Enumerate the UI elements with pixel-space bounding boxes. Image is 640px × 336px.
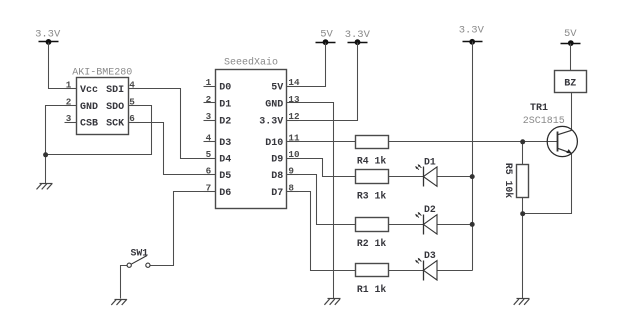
pin 10 D9 of U2: [271, 149, 300, 166]
wire 5V to U2 pin 14: [287, 43, 326, 87]
svg-text:D2: D2: [424, 204, 436, 215]
wire ground junction to U1 SDO pin 5: [46, 106, 152, 155]
svg-text:R1 1k: R1 1k: [357, 284, 387, 295]
wire R4 to transistor TR1 base: [389, 141, 558, 143]
resistor R2 1k: [356, 218, 389, 250]
pin 3 D2 of U2: [204, 111, 232, 128]
wire 5V to buzzer BZ: [570, 44, 572, 71]
svg-text:D4: D4: [219, 154, 231, 165]
IC U1 AKI-BME280 body: [77, 78, 129, 135]
svg-text:D8: D8: [271, 171, 283, 182]
wire U2 D10 pin 11 to resistor R4: [287, 141, 356, 143]
svg-text:2SC1815: 2SC1815: [523, 116, 565, 127]
svg-text:13: 13: [288, 94, 300, 105]
power 5V (buzzer): [561, 28, 581, 46]
svg-text:AKI-BME280: AKI-BME280: [72, 67, 132, 78]
svg-text:3: 3: [66, 113, 72, 124]
pin 13 GND of U2: [265, 94, 300, 111]
LED D1: [415, 156, 437, 186]
wire R2 to LED D2: [389, 224, 424, 226]
svg-text:R5 10k: R5 10k: [503, 163, 514, 198]
svg-text:D9: D9: [271, 154, 283, 165]
pin 4 D3 of U2: [204, 133, 232, 150]
svg-text:D2: D2: [219, 116, 231, 127]
svg-text:TR1: TR1: [530, 103, 548, 114]
resistor R4 1k: [356, 136, 389, 167]
ground (switch SW1): [111, 299, 127, 305]
junction LED D1 anode bus: [470, 174, 475, 179]
wire U1 SDI pin 4 to U2 D4 pin 5: [129, 89, 216, 159]
svg-text:3.3V: 3.3V: [35, 29, 61, 41]
pin 1 D0 of U2: [204, 77, 232, 94]
svg-text:D3: D3: [219, 138, 231, 149]
svg-text:1: 1: [66, 80, 72, 91]
switch SW1: [127, 247, 150, 267]
wire R5 to emitter junction: [522, 198, 524, 214]
svg-text:SCK: SCK: [106, 119, 124, 130]
svg-text:BZ: BZ: [564, 79, 576, 90]
svg-text:R4 1k: R4 1k: [357, 156, 387, 167]
svg-text:12: 12: [288, 111, 300, 122]
svg-text:Vcc: Vcc: [80, 85, 98, 96]
svg-text:2: 2: [206, 94, 212, 105]
pin 1 Vcc of U1: [65, 80, 99, 97]
svg-text:11: 11: [288, 133, 300, 144]
power 3.3V (LED anode bus): [459, 25, 485, 45]
svg-text:D1: D1: [219, 99, 231, 110]
pin 3 CSB of U1: [65, 113, 99, 130]
ground (sensor): [37, 184, 53, 190]
wire base junction to resistor R5: [522, 142, 524, 165]
pin 11 D10 of U2: [265, 133, 300, 150]
wire U1 GND pin 2 to ground junction: [46, 106, 77, 184]
ground (U2 GND): [324, 299, 340, 305]
ground (emitter/R5): [514, 299, 530, 305]
svg-text:GND: GND: [265, 99, 283, 110]
svg-text:R2 1k: R2 1k: [357, 238, 387, 249]
svg-text:6: 6: [129, 113, 135, 124]
svg-text:6: 6: [206, 165, 212, 176]
pin 14 5V of U2: [271, 77, 300, 94]
resistor R5 10k: [503, 163, 529, 198]
svg-text:D1: D1: [424, 156, 436, 167]
svg-text:SeeedXaio: SeeedXaio: [224, 56, 278, 68]
svg-text:D5: D5: [219, 171, 231, 182]
svg-text:8: 8: [288, 182, 294, 193]
transistor TR1 2SC1815: [523, 103, 578, 157]
svg-text:7: 7: [206, 182, 212, 193]
svg-text:4: 4: [206, 133, 212, 144]
pin 6 D5 of U2: [204, 165, 232, 182]
svg-text:3.3V: 3.3V: [459, 25, 485, 37]
svg-text:D7: D7: [271, 188, 283, 199]
svg-text:D3: D3: [424, 250, 436, 261]
svg-text:D6: D6: [219, 188, 231, 199]
pin 5 SDO of U1: [106, 96, 139, 113]
wire buzzer BZ to TR1 collector: [571, 93, 573, 131]
svg-text:D10: D10: [265, 138, 283, 149]
junction GND/SDO node: [43, 152, 48, 157]
wire LED D1 to 3.3V bus: [438, 176, 473, 178]
svg-text:D0: D0: [219, 82, 231, 93]
wire LED D2 to 3.3V bus: [438, 224, 473, 226]
svg-text:1: 1: [206, 77, 212, 88]
svg-text:R3 1k: R3 1k: [357, 190, 387, 201]
pin 8 D7 of U2: [271, 182, 298, 199]
svg-text:5V: 5V: [320, 29, 333, 41]
svg-text:SW1: SW1: [131, 247, 149, 258]
svg-text:5V: 5V: [271, 82, 283, 93]
wire U2 D7 pin 8 to resistor R1: [287, 192, 356, 271]
wire 3.3V to U2 pin 12: [287, 43, 358, 121]
svg-text:2: 2: [66, 96, 72, 107]
wire 3.3V LED anode bus: [472, 42, 474, 271]
wire U2 D8 pin 9 to resistor R2: [287, 175, 356, 225]
wire U1 SCK pin 6 to U2 D5 pin 6: [129, 123, 216, 175]
wire LED D3 to 3.3V bus: [438, 270, 473, 272]
power 3.3V (above SeeedXaio pin 12): [345, 29, 371, 45]
pin 5 D4 of U2: [204, 149, 232, 166]
svg-text:4: 4: [129, 80, 135, 91]
wire U2 D9 pin 10 to resistor R3: [287, 159, 356, 177]
svg-text:5: 5: [206, 149, 212, 160]
wire U2 D6 pin 7 to switch SW1: [151, 192, 216, 266]
LED D2: [415, 204, 437, 234]
pin 7 D6 of U2: [204, 182, 232, 199]
wire R1 to LED D3: [389, 270, 424, 272]
pin 2 D1 of U2: [204, 94, 232, 111]
svg-text:SDI: SDI: [106, 85, 124, 96]
junction TR1 emitter / R5: [520, 211, 525, 216]
wire R3 to LED D1: [389, 176, 424, 178]
svg-text:CSB: CSB: [80, 119, 98, 130]
svg-text:5V: 5V: [564, 28, 577, 40]
svg-text:14: 14: [288, 77, 300, 88]
junction TR1 base / R5: [520, 139, 525, 144]
junction LED D2 anode bus: [470, 222, 475, 227]
svg-text:3: 3: [206, 111, 212, 122]
svg-text:9: 9: [288, 165, 294, 176]
pin 12 3.3V of U2: [259, 111, 300, 128]
svg-text:10: 10: [288, 149, 300, 160]
wire emitter junction to ground: [522, 214, 524, 299]
wire 3.3V to U1 Vcc pin 1: [49, 43, 77, 89]
LED D3: [415, 250, 437, 281]
power 5V (above SeeedXaio pin 14): [316, 29, 336, 46]
pin 4 SDI of U1: [106, 80, 139, 97]
wire SW1 to ground: [121, 266, 128, 299]
svg-text:GND: GND: [80, 102, 98, 113]
svg-text:SDO: SDO: [106, 102, 124, 113]
power 3.3V (top left): [35, 29, 61, 45]
wire TR1 emitter return: [523, 154, 572, 214]
pin 9 D8 of U2: [271, 165, 298, 182]
svg-text:5: 5: [129, 96, 135, 107]
buzzer BZ: [555, 71, 587, 93]
IC U2 SeeedXaio body: [216, 70, 287, 209]
wire U2 GND pin 13 to ground: [287, 103, 334, 299]
svg-text:3.3V: 3.3V: [345, 29, 371, 41]
resistor R1 1k: [356, 264, 389, 296]
pin 6 SCK of U1: [106, 113, 139, 130]
pin 2 GND of U1: [65, 96, 99, 113]
svg-text:3.3V: 3.3V: [259, 116, 283, 127]
resistor R3 1k: [356, 170, 389, 202]
